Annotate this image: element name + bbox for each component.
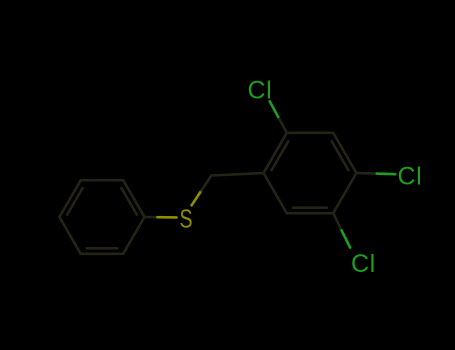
bond CH2-ring <box>211 173 263 176</box>
left benzene ring <box>60 180 145 254</box>
bond C-Cl top <box>278 117 287 133</box>
svg-text:Cl: Cl <box>398 163 423 191</box>
svg-text:Cl: Cl <box>351 250 376 278</box>
svg-text:Cl: Cl <box>248 77 273 105</box>
bond C-Cl bottom <box>333 213 341 230</box>
bond S-CH2 <box>192 190 202 205</box>
svg-text:S: S <box>180 205 193 233</box>
right benzene ring <box>264 133 357 213</box>
bond C-S <box>145 216 158 219</box>
bond C-Cl right <box>356 172 376 175</box>
